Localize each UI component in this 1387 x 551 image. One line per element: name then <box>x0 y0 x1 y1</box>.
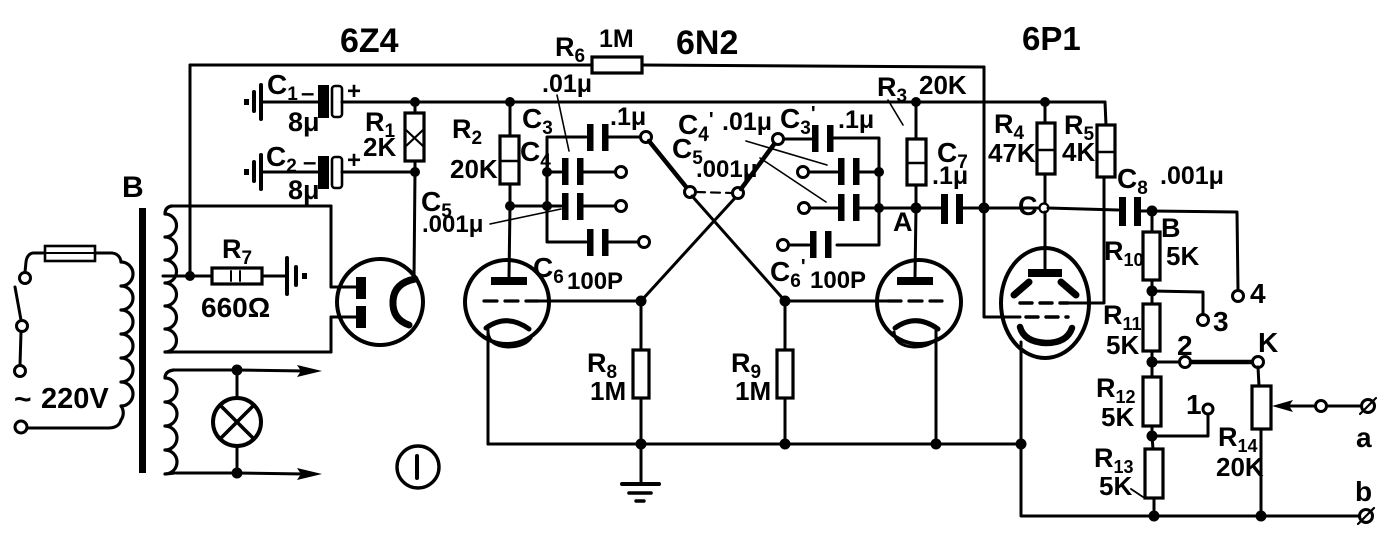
resistor R6 <box>592 57 642 73</box>
wire HV center tap <box>163 275 212 278</box>
transformer HV secondary winding <box>165 206 177 352</box>
svg-text:C3: C3 <box>522 103 553 139</box>
capacitor bank row3 <box>547 193 616 220</box>
wire to terminal 3 <box>1152 291 1203 314</box>
input terminal upper <box>15 366 26 377</box>
node C test point <box>1040 204 1049 213</box>
lamp indicator <box>213 375 261 469</box>
terminal 1 <box>1203 404 1213 414</box>
6Z4 cathode <box>393 279 415 325</box>
svg-text:660Ω: 660Ω <box>201 292 270 323</box>
node 6N2b cathode rail <box>931 439 942 450</box>
wire C7 node to C <box>984 207 1039 210</box>
wire fuse to primary top <box>95 253 121 262</box>
capacitor bank row2 <box>547 158 616 185</box>
rectifier box bottom edge <box>172 351 331 354</box>
svg-text:100P: 100P <box>567 268 623 295</box>
svg-text:.01μ: .01μ <box>542 70 592 98</box>
wire left feedback drop <box>189 65 192 276</box>
terminal a <box>1360 398 1376 414</box>
node R4 top <box>1040 97 1050 107</box>
svg-text:1M: 1M <box>590 376 626 406</box>
terminal 3 <box>1198 315 1209 326</box>
svg-text:C: C <box>1018 191 1038 221</box>
cathode rail <box>488 443 1021 446</box>
wire ground to C1 <box>261 101 318 104</box>
rectifier box top edge <box>171 205 331 208</box>
resistor R7 <box>212 268 262 284</box>
svg-text:a: a <box>1356 422 1372 453</box>
terminal 2 <box>1180 357 1191 368</box>
node bank row2 <box>542 167 552 177</box>
transformer primary winding <box>121 262 133 420</box>
wire R1 node to 6Z4 cathode <box>414 172 415 279</box>
svg-text:4: 4 <box>1250 278 1266 309</box>
svg-text:–: – <box>301 80 314 107</box>
transformer heater winding <box>165 370 177 474</box>
transformer core <box>139 208 146 473</box>
node R12 bottom <box>1147 431 1158 442</box>
node bank row3 <box>542 201 552 211</box>
svg-text:8μ: 8μ <box>288 107 320 137</box>
wire fuse to switch <box>25 253 45 272</box>
arrow heater bottom <box>237 468 322 480</box>
svg-text:6P1: 6P1 <box>1022 20 1081 57</box>
svg-text:C2: C2 <box>266 141 297 177</box>
svg-text:4K: 4K <box>1062 137 1095 167</box>
svg-text:C3': C3' <box>780 103 816 139</box>
wire B to terminal 4 <box>1152 211 1238 290</box>
wire row3 to node A <box>879 207 916 210</box>
svg-text:20K: 20K <box>919 70 967 100</box>
6N2b grid <box>785 299 942 302</box>
capacitor C2 <box>318 156 342 189</box>
wire selector right to left grid <box>641 198 735 301</box>
selector right pivot <box>733 188 744 199</box>
wire input to primary bottom <box>27 420 121 428</box>
node center tap <box>185 271 195 281</box>
leader R13 <box>1131 489 1143 497</box>
node C2/R1 <box>410 167 420 177</box>
node heater top <box>232 365 243 376</box>
svg-text:C8: C8 <box>1117 163 1148 199</box>
leader C4' label <box>746 141 827 165</box>
leader R3 label <box>888 100 903 125</box>
rectifier box right upper edge <box>331 206 357 287</box>
svg-text:B: B <box>1161 213 1181 243</box>
6P1 plate <box>1028 269 1062 277</box>
6N2b cathode <box>894 321 938 347</box>
contact row3 left bank <box>616 201 627 212</box>
svg-text:1M: 1M <box>735 376 771 406</box>
svg-text:1: 1 <box>1186 389 1202 420</box>
node right grid <box>780 296 791 307</box>
ground chassis at C1 <box>244 85 261 119</box>
node right bank row2 <box>874 167 884 177</box>
6P1 control grid <box>1026 315 1068 318</box>
wire heater bottom lead <box>176 472 237 475</box>
6Z4 plate lower <box>331 306 366 328</box>
capacitor bank row1 cap .1u <box>587 124 640 151</box>
contact row2 left bank <box>616 167 627 178</box>
svg-text:B: B <box>122 171 144 204</box>
svg-text:5K: 5K <box>1166 241 1199 271</box>
svg-text:.01μ: .01μ <box>722 108 772 136</box>
selector left pivot <box>685 187 696 198</box>
wire C1 to R1 node <box>342 101 415 104</box>
selector right arm <box>741 143 775 189</box>
wiper contact circle <box>1316 401 1327 412</box>
node R11 bottom <box>1147 357 1158 368</box>
svg-text:2: 2 <box>1177 330 1193 361</box>
svg-text:.001μ: .001μ <box>696 156 757 183</box>
6P1 cathode <box>1020 327 1072 343</box>
svg-text:K: K <box>1258 327 1278 358</box>
node heater bottom <box>232 468 243 479</box>
svg-text:.1μ: .1μ <box>610 103 646 131</box>
svg-text:R3: R3 <box>877 72 907 107</box>
switch pivot <box>17 321 28 332</box>
leader C5 label <box>490 209 561 224</box>
resistor R3 <box>907 102 926 208</box>
6N2b cathode lead <box>935 330 938 444</box>
6N2b plate <box>897 208 933 285</box>
6N2a plate <box>491 206 527 285</box>
svg-text:20K: 20K <box>450 154 498 184</box>
wire R7 to ground <box>262 275 286 278</box>
resistor R14 potentiometer <box>1252 367 1271 516</box>
capacitor right bank row3 <box>810 194 879 221</box>
svg-text:3: 3 <box>1213 306 1229 337</box>
svg-text:6N2: 6N2 <box>676 24 738 62</box>
resistor R5 <box>1097 102 1115 200</box>
wire R2 bottom to bank row3 <box>510 205 547 208</box>
node R2 bottom / plate <box>505 201 515 211</box>
svg-text:C6': C6' <box>770 256 806 292</box>
contact row1 left bank <box>641 132 652 143</box>
wire to terminal 2 <box>1152 361 1180 364</box>
switch S contact top <box>20 273 31 284</box>
right bank bus <box>833 138 879 245</box>
svg-text:5K: 5K <box>1101 402 1134 432</box>
resistor R2 <box>500 102 519 206</box>
svg-text:A: A <box>893 207 913 237</box>
fuse F <box>45 246 95 261</box>
svg-text:2K: 2K <box>363 132 396 162</box>
switch arm <box>15 287 21 320</box>
svg-text:R10: R10 <box>1104 236 1144 270</box>
tube 6Z4 envelope <box>337 259 423 345</box>
wire wiper to terminal a <box>1327 405 1361 408</box>
svg-text:R6: R6 <box>555 32 585 67</box>
resistor R9 <box>777 301 793 444</box>
wire grid drop x984 <box>984 67 1020 317</box>
tube 6N2b envelope <box>877 260 961 344</box>
svg-text:220V: 220V <box>41 383 109 415</box>
svg-text:100P: 100P <box>810 267 866 294</box>
wire selector left to right grid <box>692 196 785 301</box>
node R10 bottom <box>1147 286 1158 297</box>
wire top feedback rail left of R6 <box>190 64 592 67</box>
resistor R11 <box>1143 291 1160 362</box>
6P1 beam plate left <box>1014 282 1029 295</box>
ground symbol main <box>622 444 659 501</box>
svg-text:1M: 1M <box>599 25 634 53</box>
node R2 top <box>505 97 515 107</box>
wire switch to input terminal <box>20 332 21 365</box>
selector gang link dashed <box>696 192 732 193</box>
terminal 4 <box>1233 291 1244 302</box>
wire heater top lead <box>174 369 237 372</box>
tube 6N2a envelope <box>465 260 549 344</box>
wire top feedback rail right of R6 <box>642 65 984 67</box>
leader C3 label <box>557 95 569 151</box>
arrow heater top <box>237 365 322 377</box>
svg-text:C6: C6 <box>533 252 564 288</box>
wiper arrow R14 <box>1272 400 1316 412</box>
node B <box>1147 206 1158 217</box>
6N2a cathode lead <box>487 330 490 444</box>
node A <box>911 203 922 214</box>
capacitor C8 <box>1119 197 1151 226</box>
capacitor right bank row1 <box>784 125 834 152</box>
svg-text:.001μ: .001μ <box>1160 162 1224 190</box>
capacitor C1 <box>318 85 342 118</box>
svg-text:.1μ: .1μ <box>838 106 874 134</box>
6N2a cathode <box>486 321 531 347</box>
tube 6P1 envelope <box>1001 248 1089 358</box>
svg-text:R2: R2 <box>452 114 482 149</box>
svg-text:b: b <box>1355 476 1372 507</box>
terminal b <box>1358 508 1374 524</box>
node 6P1 cathode rail <box>1016 439 1027 450</box>
capacitor right bank row2 <box>809 158 879 185</box>
resistor R4 <box>1037 102 1055 204</box>
contact row3 right bank <box>799 203 810 214</box>
svg-text:C1: C1 <box>267 69 298 105</box>
node R8 rail <box>636 439 647 450</box>
svg-text:5K: 5K <box>1099 471 1132 501</box>
node R9 rail <box>780 439 791 450</box>
B+ rail <box>415 101 1105 104</box>
contact row1 right bank <box>773 134 784 145</box>
contact row4 right bank <box>778 240 789 251</box>
6N2a grid <box>484 299 641 302</box>
node right bank row3 <box>874 203 884 213</box>
svg-text:8μ: 8μ <box>288 175 320 205</box>
capacitor C7 <box>916 194 984 224</box>
resistor R8 <box>633 301 649 444</box>
ground chassis at C2 <box>244 155 261 189</box>
svg-text:.1μ: .1μ <box>932 162 968 190</box>
input terminal lower <box>15 421 27 433</box>
node C7 right <box>979 203 990 214</box>
selector left arm <box>649 141 687 188</box>
node C1/R1 <box>410 97 420 107</box>
svg-text:–: – <box>303 149 316 176</box>
svg-text:+: + <box>347 147 361 174</box>
node R13 bottom rail <box>1149 511 1160 522</box>
capacitor bank row4 100P <box>587 229 639 256</box>
leader C5' label <box>760 158 826 202</box>
6P1 cathode lead <box>1020 342 1023 444</box>
svg-text:.001μ: .001μ <box>422 211 483 238</box>
svg-text:R11: R11 <box>1103 300 1142 334</box>
wire C to 6P1 plate <box>1044 212 1047 269</box>
indicator circle I <box>397 446 439 488</box>
node R3 top <box>911 97 921 107</box>
resistor R13 <box>1145 436 1163 516</box>
wire C to C8 <box>1048 208 1118 210</box>
wire C2 to R1 bottom <box>342 171 415 174</box>
wire ground to C2 <box>261 171 318 174</box>
node left grid <box>636 296 647 307</box>
contact row4 left bank <box>639 237 650 248</box>
resistor R10 <box>1143 211 1160 291</box>
left bank bus <box>547 137 586 242</box>
rectifier box right lower edge <box>331 317 357 352</box>
svg-text:~: ~ <box>14 383 32 416</box>
svg-text:R7: R7 <box>222 234 252 269</box>
node R14 bottom rail <box>1256 511 1267 522</box>
capacitor right bank row4 <box>789 231 832 258</box>
svg-text:5K: 5K <box>1106 330 1139 360</box>
terminal K <box>1253 357 1264 368</box>
6P1 beam plate right <box>1061 282 1076 295</box>
6Z4 plate upper <box>331 277 366 299</box>
resistor R1 <box>405 102 424 172</box>
svg-text:20K: 20K <box>1216 452 1264 482</box>
svg-text:6Z4: 6Z4 <box>340 22 399 60</box>
contact row2 right bank <box>798 167 809 178</box>
ground chassis right of R7 <box>287 258 307 294</box>
wire to terminal 1 <box>1152 414 1208 436</box>
resistor R12 <box>1143 362 1161 436</box>
svg-text:47K: 47K <box>988 138 1036 168</box>
wire 2 to K thick <box>1191 360 1252 365</box>
wire rail drop to bottom rail <box>1021 444 1360 516</box>
6P1 screen grid <box>1020 195 1104 303</box>
